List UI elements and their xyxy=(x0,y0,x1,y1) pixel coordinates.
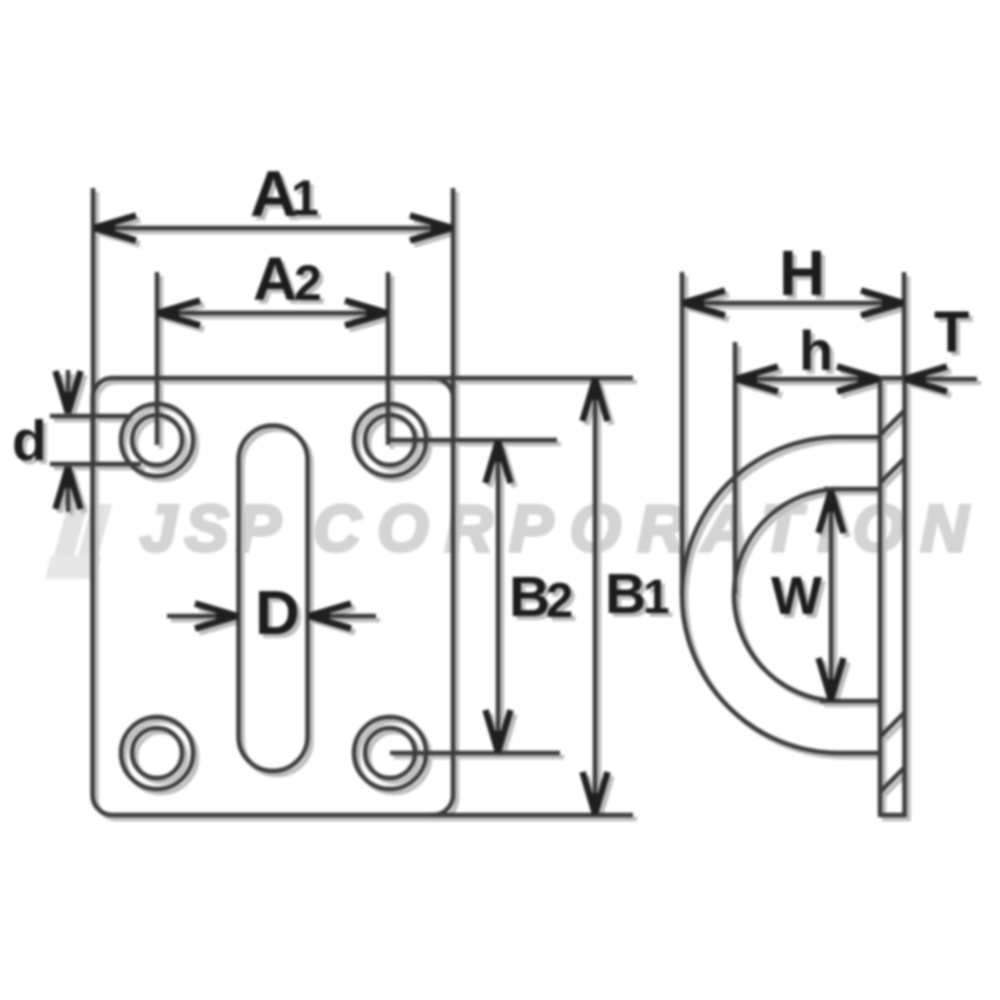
B1 top arrow pointing up xyxy=(583,378,608,421)
H left arrow xyxy=(682,291,725,316)
D right arrow pointing left xyxy=(308,604,351,629)
hole bottom-left outer xyxy=(121,717,193,789)
A2 right arrow xyxy=(345,301,388,326)
T tail line xyxy=(904,377,977,382)
A1 extension left xyxy=(91,188,96,465)
plate outline (front view) xyxy=(93,378,454,815)
B1 extension bottom xyxy=(430,813,633,818)
svg-text:B: B xyxy=(509,565,550,629)
watermark logo bolt 1 xyxy=(54,504,88,556)
A1 extension right xyxy=(451,188,456,432)
svg-text:2: 2 xyxy=(546,574,573,628)
A2 dimension line xyxy=(157,311,388,316)
A1 right arrow xyxy=(410,216,453,241)
W top arrow pointing up xyxy=(819,490,844,533)
h left arrow xyxy=(735,367,778,392)
svg-text:H: H xyxy=(779,237,825,309)
d top arrow pointing down xyxy=(56,371,81,414)
T arrow pointing left xyxy=(904,367,947,392)
H dimension line xyxy=(682,301,904,306)
center slot xyxy=(239,426,308,772)
A2 extension left xyxy=(155,272,160,445)
ring outer bottom connector xyxy=(840,751,880,756)
svg-text:1: 1 xyxy=(291,170,319,226)
B1 bottom arrow pointing down xyxy=(583,772,608,815)
d top arrow stem xyxy=(66,370,71,412)
svg-text:D: D xyxy=(255,579,300,648)
svg-text:B: B xyxy=(605,562,646,626)
d bottom arrow pointing up xyxy=(56,466,81,509)
B2 top arrow pointing up xyxy=(486,440,511,483)
h dimension line xyxy=(735,377,880,382)
watermark JSP CORPORATION xyxy=(45,491,985,579)
hatch 2 xyxy=(880,459,904,483)
hole top-right outer xyxy=(354,404,426,476)
h right arrow xyxy=(837,367,880,392)
ring inner arc xyxy=(734,489,840,701)
svg-text:T: T xyxy=(934,300,969,365)
d top line xyxy=(50,414,130,419)
ring inner top connector / W top extension xyxy=(824,487,878,492)
hole top-left outer xyxy=(121,404,193,476)
H extension left xyxy=(680,272,685,594)
svg-text:2: 2 xyxy=(294,255,322,311)
ring outer arc xyxy=(682,437,840,753)
hole top-right inner xyxy=(365,415,415,465)
W bottom arrow pointing down xyxy=(819,658,844,701)
A1 dimension line xyxy=(93,226,453,231)
svg-text:h: h xyxy=(799,319,833,382)
svg-text:1: 1 xyxy=(643,571,670,624)
B2 extension bottom xyxy=(390,751,560,756)
svg-text:A: A xyxy=(250,157,297,230)
B1 dimension line xyxy=(593,378,598,815)
d bottom arrow stem xyxy=(66,468,71,512)
watermark logo bolt 2 xyxy=(78,504,112,556)
A1 left arrow xyxy=(93,216,136,241)
hatch 3 xyxy=(880,713,904,737)
A2 left arrow xyxy=(157,301,200,326)
B2 extension top xyxy=(390,438,557,443)
svg-text:A: A xyxy=(253,245,297,313)
hole bottom-right outer xyxy=(354,717,426,789)
A2 extension right xyxy=(386,272,391,445)
svg-text:W: W xyxy=(771,566,822,626)
B1 extension top xyxy=(430,376,633,381)
hatch 4 xyxy=(880,768,904,792)
H right arrow xyxy=(861,291,904,316)
D left arrow tail xyxy=(167,614,236,619)
hole bottom-right inner xyxy=(365,728,415,778)
d bottom line xyxy=(50,462,141,467)
D left arrow pointing right xyxy=(195,604,238,629)
ring inner bottom connector / W bottom extension xyxy=(820,699,878,704)
hatch 1 xyxy=(880,411,904,435)
H extension right xyxy=(902,272,907,378)
ring outer top connector xyxy=(840,435,880,440)
B2 dimension line xyxy=(496,440,501,753)
hole bottom-left inner xyxy=(132,728,182,778)
hole top-left inner xyxy=(132,415,182,465)
W dimension line xyxy=(829,490,834,701)
D right arrow tail xyxy=(310,614,376,619)
svg-text:JSP: JSP xyxy=(140,491,289,565)
svg-text:d: d xyxy=(12,409,47,473)
h extension left xyxy=(733,342,738,594)
B2 bottom arrow pointing down xyxy=(486,710,511,753)
side view bar xyxy=(880,378,905,815)
svg-text:CORPORATION: CORPORATION xyxy=(313,491,985,565)
